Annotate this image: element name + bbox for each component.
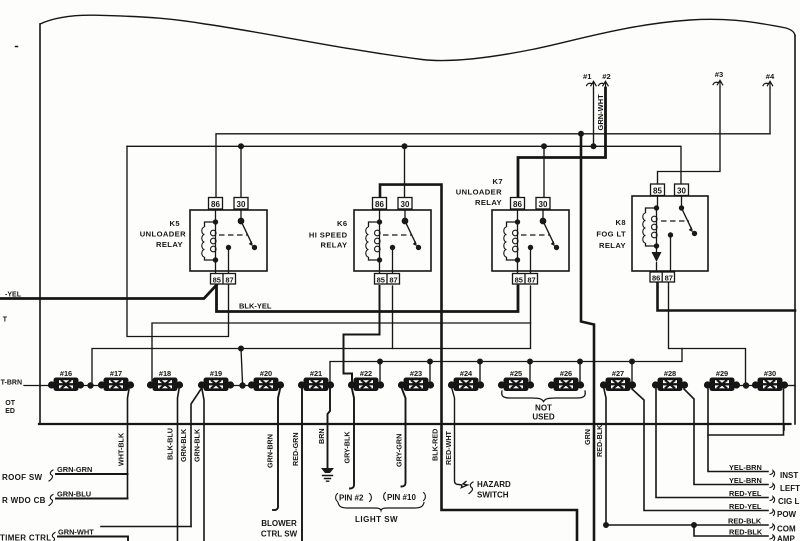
callout #2 label xyxy=(602,72,610,81)
svg-text:87: 87 xyxy=(225,275,233,284)
wire GRN-BLK 2 from #19L down xyxy=(202,389,204,541)
row stub #30R to torn edge xyxy=(784,385,795,387)
label RED-BLK 2 xyxy=(729,528,763,537)
wire BLK-YEL thick: K5-85 down across to K7-85 xyxy=(217,284,519,312)
row link #19-#20 xyxy=(230,385,252,387)
wire K6-30 riser xyxy=(404,146,406,198)
relay K6 name label xyxy=(309,219,348,250)
svg-text:WHT-BLK: WHT-BLK xyxy=(117,432,126,466)
wire: distribution line y=361 over connectors 21-27 xyxy=(330,349,682,384)
svg-text:BLK-RED: BLK-RED xyxy=(431,429,440,461)
svg-text:GRN-WHT: GRN-WHT xyxy=(596,94,605,131)
row feed line into #16 from torn left edge xyxy=(24,385,49,387)
svg-text:85: 85 xyxy=(653,186,662,195)
label GRN-WHT (rotated) xyxy=(596,94,605,131)
svg-text:K8: K8 xyxy=(615,218,626,227)
svg-text:#19: #19 xyxy=(210,369,222,378)
ground symbol xyxy=(321,468,334,481)
label BLK-RED (rotated) xyxy=(431,429,440,461)
svg-text:RELAY: RELAY xyxy=(320,241,347,250)
wire RED-BLK from #27L down xyxy=(604,389,606,525)
label BLOWER CTRL SW xyxy=(261,519,298,539)
svg-text:RED-YEL: RED-YEL xyxy=(729,489,762,498)
callout #4 label xyxy=(766,72,775,81)
svg-text:BLK-BLU: BLK-BLU xyxy=(166,428,175,460)
label RED-BLK 1 xyxy=(728,517,762,526)
svg-text:GRN-WHT: GRN-WHT xyxy=(58,528,94,537)
wire GRN-WHT: callout #2 down to K7 coil 86 xyxy=(518,88,606,198)
relay K8 xyxy=(632,184,708,283)
squiggle before GRN-BLU xyxy=(49,495,53,506)
svg-text:YEL-BRN: YEL-BRN xyxy=(729,476,762,485)
wire: callout #3 down to K8 coil 85 xyxy=(658,87,721,185)
svg-text:86: 86 xyxy=(513,200,522,209)
svg-text:BLOWER: BLOWER xyxy=(261,519,297,528)
svg-text:#26: #26 xyxy=(560,369,572,378)
junction dot RED-BLK xyxy=(603,522,609,528)
wire YEL-BRN 1 from #29L down to INST xyxy=(708,389,768,472)
dot and riser to #27R xyxy=(629,359,635,365)
label GRN (rotated) xyxy=(583,429,592,445)
svg-text:POW: POW xyxy=(777,510,797,519)
junction dot 16/17 xyxy=(87,382,93,388)
label PIN #2 with parens xyxy=(339,494,364,503)
hook and label COM xyxy=(770,524,775,530)
svg-text:LEFT: LEFT xyxy=(780,484,800,493)
svg-text:#27: #27 xyxy=(612,369,624,378)
svg-text:GRN-BLK: GRN-BLK xyxy=(179,428,188,462)
hook and label AMP xyxy=(770,535,775,541)
svg-text:#17: #17 xyxy=(110,369,122,378)
wire: bus2 left end down and over to K5-87 xyxy=(127,146,229,336)
junction dot #1/bus2 xyxy=(591,143,597,149)
label RED-YEL 1 xyxy=(729,489,762,498)
label GRN-GRN xyxy=(57,465,92,474)
label RED-BLK (rotated) xyxy=(595,424,604,457)
svg-text:87: 87 xyxy=(527,275,535,284)
label PIN #10 with parens xyxy=(387,493,416,502)
svg-text:#28: #28 xyxy=(664,369,676,378)
wire GRN-BLK 1 from #19L (diagonal) xyxy=(191,389,201,527)
bottom border line xyxy=(39,423,791,425)
callout #2 arrow hook xyxy=(599,81,609,88)
svg-text:#22: #22 xyxy=(360,369,372,378)
wire #30R down to y435 link xyxy=(708,389,784,435)
left margin torn label fragments xyxy=(3,317,16,416)
svg-text:ROOF SW: ROOF SW xyxy=(2,473,42,482)
wire RED-WHT from #24L to hazard switch xyxy=(452,389,468,488)
svg-text:R WDO CB: R WDO CB xyxy=(2,496,46,505)
wire: K7-87 down, across left, down to row junction 16/17 xyxy=(92,286,531,383)
label BLK-YEL xyxy=(239,302,272,311)
hook and label INST xyxy=(770,471,775,477)
svg-text:30: 30 xyxy=(401,200,410,209)
svg-text:RED-BLK: RED-BLK xyxy=(595,424,604,457)
connector #19 xyxy=(198,369,234,391)
wire WHT-BLK from #17R down xyxy=(128,389,130,499)
connector #24 xyxy=(448,369,484,391)
svg-text:RED-BLK: RED-BLK xyxy=(729,528,763,537)
connector #30 xyxy=(752,369,788,391)
svg-text:GRY-GRN: GRY-GRN xyxy=(395,434,404,467)
svg-text:UNLOADER: UNLOADER xyxy=(456,188,502,197)
svg-text:ED: ED xyxy=(5,408,15,415)
row link #16-#17 xyxy=(80,385,102,387)
svg-text:30: 30 xyxy=(677,186,686,195)
wire BLK-BLU from #18R down xyxy=(178,389,180,541)
squiggle before GRN-WHT xyxy=(51,533,55,541)
svg-text:RED-GRN: RED-GRN xyxy=(291,432,300,466)
svg-text:#18: #18 xyxy=(159,369,171,378)
svg-text:K5: K5 xyxy=(169,219,180,228)
svg-text:#30: #30 xyxy=(764,369,776,378)
callout #1 wire to bus2 xyxy=(593,88,595,146)
svg-text:GRN-BLU: GRN-BLU xyxy=(57,490,91,499)
relay K7 name label xyxy=(456,177,503,207)
label ROOF SW (torn) xyxy=(2,473,42,482)
torn page right edge xyxy=(794,36,796,425)
wire: K8-87 down, right, down to junction 29/30 xyxy=(669,282,746,383)
connector #21 xyxy=(298,369,334,391)
svg-text:HAZARD: HAZARD xyxy=(477,480,511,489)
label NOT USED xyxy=(532,404,554,422)
wire: callout #4 down to bus 1 xyxy=(769,88,771,134)
svg-text:TIMER CTRL: TIMER CTRL xyxy=(0,534,51,541)
label GRN-BLK 1 (rotated) xyxy=(179,428,188,462)
svg-text:PIN #2: PIN #2 xyxy=(339,494,364,503)
connector #22 xyxy=(348,369,384,391)
speck at left margin xyxy=(16,46,18,48)
bus wire 2 (relay 30 terminals) xyxy=(127,146,681,185)
label -YEL (torn BLK-YEL) xyxy=(5,292,22,299)
label RED-YEL 2 xyxy=(729,502,762,511)
callout #1 label xyxy=(583,72,592,81)
svg-text:#24: #24 xyxy=(460,369,473,378)
connector #17 xyxy=(98,369,134,391)
label WHT-BLK (rotated) xyxy=(117,432,126,466)
label GRN-WHT xyxy=(58,528,94,537)
svg-text:#16: #16 xyxy=(60,369,72,378)
svg-text:RED-BLK: RED-BLK xyxy=(728,517,762,526)
label YEL-BRN 1 xyxy=(729,463,762,472)
svg-text:GRN: GRN xyxy=(583,429,592,445)
svg-text:PIN #10: PIN #10 xyxy=(387,493,416,502)
short stub line y=526.5 xyxy=(101,526,191,528)
dot and riser to #25R xyxy=(527,359,533,365)
connector #28 xyxy=(652,369,688,391)
connector #25 xyxy=(498,369,534,391)
svg-text:86: 86 xyxy=(211,200,220,209)
brace under PIN labels xyxy=(338,503,424,511)
svg-text:#20: #20 xyxy=(260,369,272,378)
svg-text:87: 87 xyxy=(389,275,397,284)
svg-text:#25: #25 xyxy=(510,369,522,378)
svg-text:FOG LT: FOG LT xyxy=(596,230,626,239)
wire GRN: thick vertical from bus1 down to page bottom xyxy=(581,134,594,541)
relay K5 switch pivot dot xyxy=(238,218,243,223)
svg-text:T-BRN: T-BRN xyxy=(1,380,22,387)
svg-text:#21: #21 xyxy=(310,369,322,378)
svg-text:85: 85 xyxy=(377,275,385,284)
dot and riser to #23R xyxy=(427,359,433,365)
callout #1 arrow hook xyxy=(587,81,597,88)
label GRN-BRN (rotated) xyxy=(266,434,275,468)
connector #29 xyxy=(704,369,740,391)
wire RED-BLK run to COM xyxy=(606,524,768,526)
svg-text:LIGHT SW: LIGHT SW xyxy=(355,515,398,524)
wire K5-30 riser xyxy=(240,146,242,197)
svg-text:#23: #23 xyxy=(410,369,422,378)
relay K5 name label xyxy=(140,219,186,249)
wire GRY-BLK from #22L to light sw pin 2 xyxy=(350,389,354,489)
torn page left edge xyxy=(39,24,41,424)
label RED-WHT (rotated) xyxy=(444,430,453,465)
svg-text:RED-YEL: RED-YEL xyxy=(729,502,762,511)
wire K7-30 riser xyxy=(543,146,545,197)
wire BLK-YEL thick: left edge to K5-85 xyxy=(0,285,217,299)
label LIGHT SW xyxy=(355,515,398,524)
connector #18 xyxy=(147,369,183,391)
svg-text:87: 87 xyxy=(665,274,673,283)
svg-text:HI SPEED: HI SPEED xyxy=(309,231,348,240)
label GRY-GRN (rotated) xyxy=(395,434,404,467)
squiggle before GRN-GRN xyxy=(49,470,53,481)
wire GRN-BLU to R WDO CB xyxy=(56,498,128,500)
svg-text:GRN-GRN: GRN-GRN xyxy=(57,465,92,474)
label GRY-BLK (rotated) xyxy=(343,431,352,464)
svg-text:OT: OT xyxy=(5,400,15,407)
label BRN (rotated) xyxy=(317,428,326,444)
relay K7 switch pivot dot xyxy=(540,218,545,223)
wire GRY-GRN from #23L to light sw pin 10 xyxy=(402,389,406,487)
junction dot bus2/K5-30 xyxy=(238,143,244,149)
bus wire 1 (feeds relay 86/30 tops) xyxy=(216,134,770,198)
junction dot bus2/K7-30 xyxy=(541,143,547,149)
svg-text:SWITCH: SWITCH xyxy=(477,491,509,500)
junction dot RED-BLK branch xyxy=(691,522,697,528)
wire RED-BLK branch down to AMP line xyxy=(694,525,768,536)
svg-text:RELAY: RELAY xyxy=(599,241,626,250)
label GRN-BLK 2 (rotated) xyxy=(193,428,202,462)
svg-text:COM: COM xyxy=(777,525,796,534)
wire YEL-BRN 2 from #28R down to LEFT xyxy=(684,389,768,485)
svg-text:T: T xyxy=(3,317,8,324)
svg-text:UNLOADER: UNLOADER xyxy=(140,230,186,239)
connector #26 xyxy=(548,369,584,391)
connector #20 xyxy=(248,369,284,391)
svg-text:85: 85 xyxy=(515,275,523,284)
svg-text:#3: #3 xyxy=(715,70,723,79)
wire GRN-WHT to TIMER CTRL xyxy=(58,537,128,541)
svg-text:30: 30 xyxy=(237,200,246,209)
svg-text:K6: K6 xyxy=(337,219,348,228)
connector #27 xyxy=(600,369,636,391)
svg-text:USED: USED xyxy=(532,413,554,422)
svg-text:AMP: AMP xyxy=(777,535,795,541)
connector #23 xyxy=(398,369,434,391)
callout #4 arrow hook xyxy=(763,81,773,88)
wire GRN-GRN to ROOF SW xyxy=(56,473,128,475)
svg-text:#2: #2 xyxy=(602,72,610,81)
right edge step xyxy=(783,424,785,430)
svg-text:YEL-BRN: YEL-BRN xyxy=(729,463,762,472)
relay K5 xyxy=(190,198,267,285)
row link #29-#30 xyxy=(736,385,756,387)
svg-text:GRY-BLK: GRY-BLK xyxy=(343,431,352,464)
svg-text:86: 86 xyxy=(375,200,384,209)
wire: mid distribution line y=323 from #18L up run xyxy=(152,323,531,381)
connector #16 xyxy=(48,369,84,391)
svg-text:86: 86 xyxy=(652,274,660,283)
junction dot on K7-87 run xyxy=(238,346,244,352)
svg-text:GRN-BRN: GRN-BRN xyxy=(266,434,275,468)
svg-text:RELAY: RELAY xyxy=(156,240,183,249)
torn page top wavy edge xyxy=(40,15,795,60)
junction dot bus2/K6-30 xyxy=(402,143,408,149)
label TIMER CTRL (torn) xyxy=(0,534,51,541)
wire thick: K8-86 down and right to torn edge xyxy=(658,282,796,311)
label YEL-BRN 2 xyxy=(729,476,762,485)
hook and label LEFT xyxy=(770,484,775,490)
relay K6 switch pivot dot xyxy=(402,218,407,223)
wire GRN-BRN from #20R to blower ctrl sw xyxy=(273,389,280,510)
wire: K6-85 down, jog left, down to #22L xyxy=(344,286,380,381)
svg-text:CTRL SW: CTRL SW xyxy=(261,530,298,539)
wire BRN from #21R to ground xyxy=(328,389,331,468)
svg-text:BLK-YEL: BLK-YEL xyxy=(239,302,272,311)
svg-text:#1: #1 xyxy=(583,72,592,81)
label RED-GRN (rotated) xyxy=(291,432,300,466)
label HAZARD SWITCH xyxy=(477,480,511,500)
wire RED-GRN from #21L down xyxy=(301,389,303,541)
callout #3 label xyxy=(715,70,723,79)
svg-text:CIG L: CIG L xyxy=(778,497,799,506)
hook and label POW xyxy=(770,510,775,516)
relay K8 name label xyxy=(596,218,626,250)
svg-text:-YEL: -YEL xyxy=(5,292,22,299)
svg-text:85: 85 xyxy=(213,275,221,284)
wire RED-YEL 1 from #28L down to CIG xyxy=(656,389,768,498)
brace before HAZARD SWITCH xyxy=(469,482,473,494)
wire RED-YEL 2 from #27R diagonal down to POW xyxy=(632,389,768,511)
svg-text:INST: INST xyxy=(780,471,798,480)
wire thick: K6-86 up over and down (becomes BLK-RED to hazard area) xyxy=(380,185,577,541)
wire: riser from dot down to row junction 19/20 xyxy=(241,349,243,384)
brace NOT USED under #25 #26 xyxy=(502,391,585,402)
junction dot 29/30 xyxy=(743,382,749,388)
svg-text:#29: #29 xyxy=(716,369,728,378)
svg-text:#4: #4 xyxy=(766,72,775,81)
label R WDO CB (torn) xyxy=(2,496,46,505)
svg-text:RELAY: RELAY xyxy=(475,198,502,207)
junction dot bus1 / GRN feeder xyxy=(578,131,584,137)
junction dot 19/20 xyxy=(239,382,245,388)
svg-text:GRN-BLK: GRN-BLK xyxy=(193,428,202,462)
relay K7 xyxy=(492,198,569,285)
dot and riser to #24R xyxy=(477,359,483,365)
dot and riser to #26R xyxy=(577,359,583,365)
svg-text:RED-WHT: RED-WHT xyxy=(444,430,453,465)
svg-text:BRN: BRN xyxy=(317,428,326,444)
svg-text:NOT: NOT xyxy=(535,404,552,413)
svg-text:K7: K7 xyxy=(492,177,503,186)
wire: K6-87 down to K7-87 run xyxy=(392,286,394,349)
label T-BRN (torn) xyxy=(1,380,22,387)
relay K6 xyxy=(354,198,431,285)
label BLK-BLU (rotated) xyxy=(166,428,175,460)
hook and label CIG xyxy=(770,497,775,503)
svg-text:30: 30 xyxy=(539,200,548,209)
callout #3 arrow hook xyxy=(713,80,723,87)
label GRN-BLU xyxy=(57,490,91,499)
dot and riser to #22R xyxy=(377,359,383,365)
